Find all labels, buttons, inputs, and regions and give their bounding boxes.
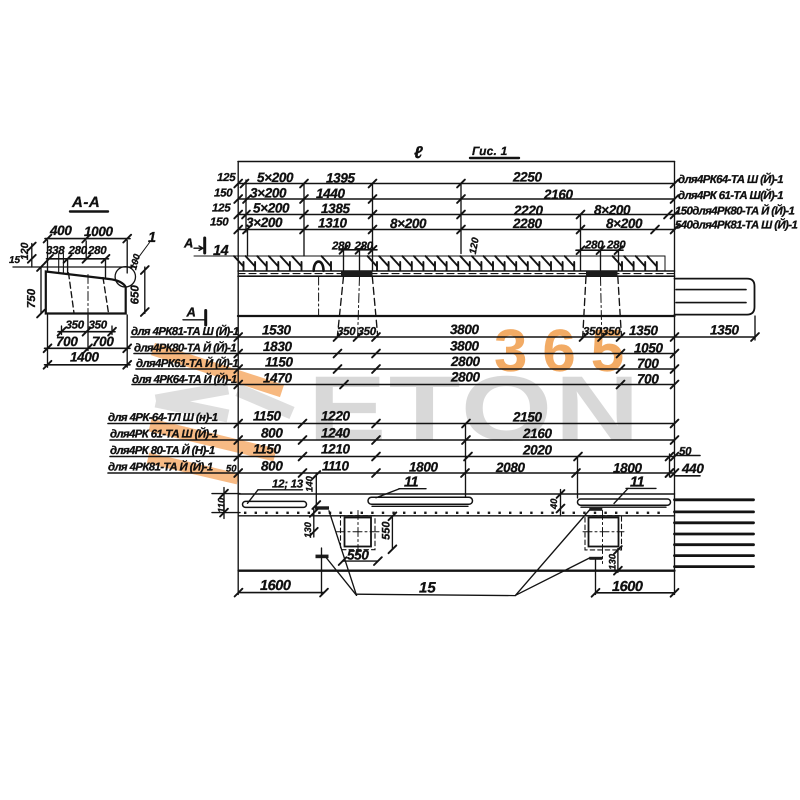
watermark [148, 317, 642, 479]
lower table row 1 [108, 409, 678, 428]
svg-text:120: 120 [19, 242, 31, 260]
dim 400 1000 [44, 223, 131, 273]
svg-text:2160: 2160 [543, 187, 573, 202]
svg-text:3×200: 3×200 [250, 186, 287, 201]
svg-text:5×200: 5×200 [257, 170, 294, 185]
lower table row 2 [110, 426, 678, 444]
dim 130 plan left [303, 509, 318, 538]
svg-text:1240: 1240 [321, 426, 350, 441]
svg-text:2280: 2280 [512, 216, 542, 231]
label 11 right [614, 475, 656, 504]
prestressing strands [675, 500, 754, 567]
svg-text:1400: 1400 [70, 350, 99, 365]
lower table row 3 [110, 442, 678, 461]
svg-text:2150: 2150 [512, 410, 542, 425]
beam elevation body [238, 256, 675, 316]
section cut marker A top [183, 236, 205, 254]
svg-text:400: 400 [49, 223, 72, 238]
dim 350 350 below section [58, 320, 116, 336]
svg-text:для4РК 80-ТА Й (Н)-1: для4РК 80-ТА Й (Н)-1 [110, 443, 215, 457]
plate 1 dims 280 280 [331, 240, 377, 270]
middle table row 1 [131, 316, 759, 341]
svg-text:3800: 3800 [450, 339, 479, 354]
svg-text:2800: 2800 [450, 370, 480, 385]
svg-text:2080: 2080 [495, 460, 525, 475]
svg-text:350: 350 [66, 320, 85, 332]
section stirrup ticks [58, 254, 60, 273]
beam end tongue [675, 279, 755, 315]
svg-text:Гис. 1: Гис. 1 [472, 144, 508, 158]
svg-text:700: 700 [56, 334, 78, 349]
svg-text:1600: 1600 [260, 578, 291, 594]
svg-text:350: 350 [583, 326, 602, 338]
svg-text:540для4РК81-ТА Ш (Й)-1: 540для4РК81-ТА Ш (Й)-1 [675, 218, 797, 232]
svg-text:для4РК80-ТА Й (Й)-1: для4РК80-ТА Й (Й)-1 [134, 341, 236, 355]
plan dots row [244, 512, 660, 514]
svg-text:150: 150 [214, 188, 233, 200]
plate strip 12,13 [243, 501, 307, 507]
dim 550 vertical left square [381, 512, 397, 553]
svg-text:800: 800 [261, 459, 283, 474]
svg-text:700: 700 [637, 372, 659, 387]
svg-text:1: 1 [148, 230, 156, 246]
svg-text:440: 440 [681, 461, 704, 476]
svg-text:350: 350 [89, 320, 108, 332]
middle table row 3 [136, 354, 678, 373]
dim 550 horizontal left square [339, 548, 382, 565]
svg-text:130: 130 [607, 553, 618, 570]
svg-text:800: 800 [261, 426, 283, 441]
svg-text:125: 125 [212, 203, 231, 215]
detail circle 1 [115, 267, 135, 287]
svg-text:120: 120 [468, 236, 482, 255]
top dim row 2 [214, 186, 678, 203]
svg-text:8×200: 8×200 [390, 216, 427, 231]
dim 40 plan [549, 490, 564, 517]
svg-text:750: 750 [26, 288, 38, 308]
svg-text:3800: 3800 [450, 322, 479, 337]
right 50 440 dims [666, 446, 705, 477]
svg-text:130: 130 [303, 521, 314, 538]
svg-text:1395: 1395 [326, 171, 355, 186]
svg-text:1210: 1210 [321, 442, 350, 457]
svg-text:для 4РК81-ТА Й (Й)-1: для 4РК81-ТА Й (Й)-1 [108, 460, 213, 474]
svg-text:А-А: А-А [71, 194, 100, 211]
square plate left [336, 511, 381, 555]
label 15 with leaders [327, 510, 590, 597]
svg-text:100: 100 [128, 252, 143, 271]
svg-text:1385: 1385 [321, 201, 350, 216]
svg-text:1050: 1050 [634, 341, 663, 356]
dim 120 left vertical [19, 242, 36, 267]
svg-text:12; 13: 12; 13 [272, 479, 304, 491]
dim 130 plan right [607, 546, 621, 575]
svg-text:2160: 2160 [522, 426, 552, 441]
svg-text:1310: 1310 [318, 216, 347, 231]
svg-text:15: 15 [419, 580, 436, 597]
title Fig.1 [470, 144, 519, 158]
top dim row 1 [217, 170, 678, 188]
svg-text:280: 280 [584, 239, 604, 251]
svg-text:14: 14 [213, 243, 229, 259]
svg-text:3×200: 3×200 [246, 215, 283, 230]
plate strip 11 left [368, 497, 473, 504]
svg-text:1150: 1150 [253, 409, 281, 424]
dim 110 plan left edge [212, 488, 240, 519]
svg-text:1150: 1150 [253, 442, 281, 457]
top dim row 4 [210, 215, 678, 233]
svg-text:338: 338 [46, 245, 65, 257]
svg-text:1530: 1530 [262, 323, 291, 338]
main right vertical extension [674, 162, 676, 595]
svg-text:ℓ: ℓ [414, 143, 423, 162]
svg-text:2800: 2800 [450, 354, 480, 369]
stirrup zone line 14 [194, 255, 665, 257]
svg-text:280: 280 [68, 245, 88, 257]
dim 1600 right [592, 560, 679, 597]
svg-text:1600: 1600 [612, 579, 643, 595]
embedded plate 14 left [341, 271, 373, 277]
svg-text:125: 125 [217, 172, 236, 184]
svg-text:1350: 1350 [710, 323, 739, 338]
svg-text:350: 350 [337, 326, 356, 338]
svg-text:2250: 2250 [512, 170, 542, 185]
svg-text:700: 700 [92, 334, 114, 349]
dim 338 280 280 [45, 245, 109, 279]
svg-text:А: А [183, 236, 193, 251]
strand deflection dashes right [583, 277, 586, 338]
svg-text:для4РК 61-ТА Ш (Й)-1: для4РК 61-ТА Ш (Й)-1 [110, 427, 218, 441]
top dim row 3 [212, 201, 678, 219]
plan view outline [239, 494, 675, 571]
svg-text:15: 15 [9, 255, 21, 266]
extension verticals of top rows [245, 180, 247, 232]
section A-A title [70, 194, 108, 212]
embedded plate 14 right [586, 271, 618, 277]
middle table row 2 [134, 339, 678, 358]
square plate right [583, 511, 624, 564]
dim 1600 left [235, 548, 328, 596]
svg-text:700: 700 [637, 356, 659, 371]
svg-text:для4РК64-ТА Ш (Й)-1: для4РК64-ТА Ш (Й)-1 [678, 172, 783, 186]
strand deflection dashes left [337, 277, 343, 338]
svg-text:110: 110 [217, 497, 228, 513]
svg-text:550: 550 [347, 548, 369, 563]
lifting loop [314, 262, 324, 271]
label 11 left [376, 475, 426, 498]
hatch marks zone 1 [234, 256, 657, 271]
svg-text:280: 280 [331, 240, 351, 252]
svg-text:1800: 1800 [613, 461, 642, 476]
svg-text:5×200: 5×200 [253, 201, 290, 216]
svg-text:280: 280 [354, 240, 374, 252]
anchor marks [315, 506, 329, 509]
svg-text:1000: 1000 [84, 224, 113, 239]
svg-text:650: 650 [130, 285, 142, 305]
svg-text:1440: 1440 [316, 186, 345, 201]
svg-text:для4РК61-ТА Й (Й)-1: для4РК61-ТА Й (Й)-1 [136, 356, 238, 370]
svg-text:40: 40 [549, 498, 560, 510]
section top reference line [13, 266, 136, 268]
svg-text:1150: 1150 [265, 355, 293, 370]
plate 2 dims 280 280 [576, 239, 626, 270]
overall length line l [238, 143, 675, 162]
svg-text:для 4РК81-ТА Ш (Й)-1: для 4РК81-ТА Ш (Й)-1 [131, 324, 239, 338]
svg-text:1800: 1800 [409, 460, 438, 475]
dim 650 [130, 266, 149, 316]
lower table row 4 [108, 459, 678, 477]
svg-text:1220: 1220 [321, 409, 350, 424]
svg-text:1110: 1110 [322, 459, 349, 474]
svg-text:для 4РК-64-ТЛ Ш (н)-1: для 4РК-64-ТЛ Ш (н)-1 [108, 412, 218, 424]
dim 1400 [44, 315, 131, 369]
svg-text:для4РК 61-ТА Ш(Й)-1: для4РК 61-ТА Ш(Й)-1 [678, 188, 783, 202]
svg-text:2020: 2020 [522, 443, 552, 458]
svg-text:А: А [186, 305, 196, 320]
svg-text:550: 550 [381, 521, 393, 540]
section dashed strand lines [69, 273, 75, 313]
section A-A outline [46, 272, 126, 314]
middle table row 4 [132, 370, 678, 389]
watermark logo chevron stripes [148, 349, 292, 479]
svg-text:140: 140 [305, 475, 316, 492]
dim 750 [26, 263, 45, 317]
svg-text:280: 280 [87, 245, 107, 257]
dim 700 700 [44, 315, 131, 352]
label 12 13 [248, 479, 304, 504]
dim 140 plan [305, 471, 321, 509]
section cut marker A bottom [183, 305, 206, 326]
svg-text:1470: 1470 [263, 371, 292, 386]
svg-text:1350: 1350 [629, 323, 658, 338]
svg-text:1830: 1830 [263, 339, 292, 354]
plate strip 11 right [578, 499, 671, 505]
svg-text:150: 150 [210, 217, 229, 229]
extension verticals between tables and plan [465, 424, 467, 498]
svg-text:350: 350 [602, 326, 621, 338]
svg-text:280: 280 [606, 239, 626, 251]
svg-text:350: 350 [358, 326, 377, 338]
svg-text:8×200: 8×200 [606, 216, 643, 231]
main left vertical extension [237, 162, 239, 595]
svg-text:150для4РК80-ТА Й (Й)-1: 150для4РК80-ТА Й (Й)-1 [675, 204, 794, 218]
